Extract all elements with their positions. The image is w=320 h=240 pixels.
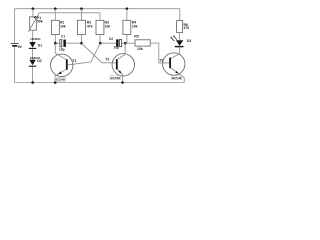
battery BT1 9V (11, 43, 23, 49)
node A junction R1/C1/T1 collector (54, 42, 57, 45)
svg-text:47k: 47k (87, 25, 93, 29)
resistor R4 10k (123, 9, 138, 44)
wire rail B (pot wiper net) (39, 13, 100, 20)
svg-text:BC548: BC548 (111, 76, 121, 80)
diode D2 1N4001 (29, 56, 42, 83)
node C junction R3/C2/T1 base (99, 42, 102, 45)
potentiometer P1 50k (29, 9, 43, 42)
capacitor C1 10u (55, 35, 81, 52)
wire T1 base cross-coupling (68, 43, 101, 65)
resistor R6 470 (177, 9, 190, 41)
label box BC548 T3 (171, 76, 182, 80)
wire T2 base cross-coupling (82, 43, 116, 63)
svg-text:50k: 50k (37, 20, 43, 24)
resistor R2 47k (78, 9, 93, 44)
node B junction R2/C1/T2 base (80, 42, 83, 45)
svg-text:BC548: BC548 (55, 78, 65, 82)
transistor T2 BC548 (105, 43, 134, 82)
node dot R4 top (126, 7, 129, 10)
svg-text:C1: C1 (61, 35, 65, 39)
node dot D2 ground (31, 81, 34, 84)
diode D1 1N4001 (29, 37, 42, 60)
svg-text:10k: 10k (60, 25, 66, 29)
wire V+ rail A (15, 8, 180, 10)
svg-text:10µ: 10µ (59, 47, 65, 51)
capacitor C2 10u (100, 37, 128, 50)
wire battery top to rail (14, 9, 16, 43)
node dot R2 top (80, 7, 83, 10)
svg-text:D2: D2 (37, 59, 41, 63)
svg-text:470: 470 (184, 26, 190, 30)
label box BC548 T1 (55, 77, 66, 81)
svg-text:T3: T3 (159, 58, 163, 62)
transistor T3 BC548 (159, 53, 185, 83)
svg-text:T2: T2 (105, 57, 109, 61)
node dot R1 top (54, 7, 57, 10)
wire battery bottom (14, 47, 16, 83)
node dot P1 top (32, 7, 35, 10)
svg-text:T1: T1 (72, 59, 76, 63)
node dot T2 emitter (121, 81, 124, 84)
label box BC548 T2 (110, 76, 121, 80)
svg-text:9V: 9V (18, 45, 23, 49)
svg-text:D1: D1 (38, 44, 42, 48)
node dot T1 emitter (54, 81, 57, 84)
svg-text:1N4001: 1N4001 (30, 37, 41, 41)
svg-text:R5: R5 (134, 35, 138, 39)
svg-text:10k: 10k (137, 47, 143, 51)
node D junction R4/C2/R5/T2 collector (124, 42, 127, 45)
svg-text:10k: 10k (132, 25, 138, 29)
svg-text:10k: 10k (105, 25, 111, 29)
resistor R5 10k (125, 35, 169, 63)
transistor T1 BC548 (51, 43, 77, 82)
svg-text:D3: D3 (187, 39, 191, 43)
resistor R3 10k (96, 20, 110, 43)
svg-text:BC548: BC548 (172, 76, 182, 80)
resistor R1 10k (51, 9, 65, 44)
wire ground rail (15, 82, 185, 84)
svg-text:10µ: 10µ (114, 46, 120, 50)
LED D3 (170, 35, 191, 59)
svg-text:C2: C2 (109, 37, 113, 41)
